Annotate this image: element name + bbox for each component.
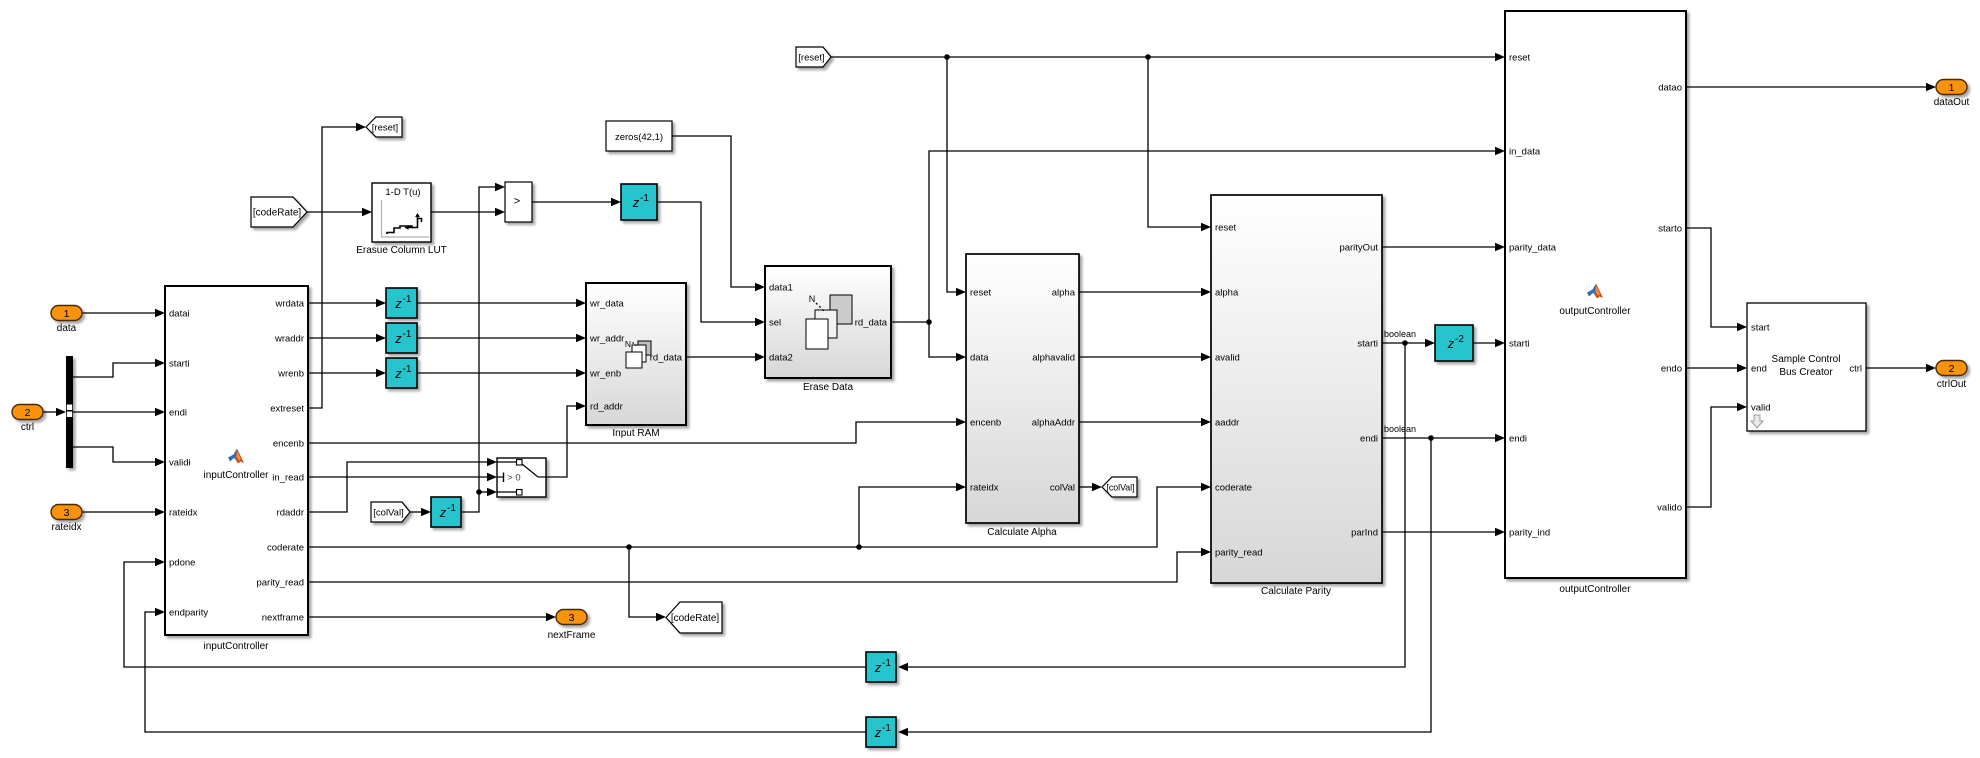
svg-text:parityOut: parityOut xyxy=(1339,242,1378,253)
svg-text:starti: starti xyxy=(1357,338,1378,349)
svg-text:1-D T(u): 1-D T(u) xyxy=(385,187,420,198)
svg-text:parity_read: parity_read xyxy=(256,577,304,588)
svg-text:alphaAddr: alphaAddr xyxy=(1032,417,1075,428)
svg-text:parity_ind: parity_ind xyxy=(1509,527,1550,538)
svg-text:wrenb: wrenb xyxy=(277,368,304,379)
svg-text:rateidx: rateidx xyxy=(169,507,198,518)
svg-text:data: data xyxy=(57,323,77,334)
svg-text:endi: endi xyxy=(1360,433,1378,444)
svg-text:z: z xyxy=(874,725,882,740)
svg-text:wraddr: wraddr xyxy=(274,333,304,344)
svg-text:-2: -2 xyxy=(1455,334,1464,345)
svg-text:rateidx: rateidx xyxy=(970,482,999,493)
svg-text:-1: -1 xyxy=(882,658,891,669)
svg-text:coderate: coderate xyxy=(1215,482,1252,493)
svg-text:datai: datai xyxy=(169,308,190,319)
svg-text:boolean: boolean xyxy=(1384,329,1416,339)
svg-text:avalid: avalid xyxy=(1215,352,1240,363)
svg-text:rdaddr: rdaddr xyxy=(277,507,304,518)
svg-text:reset: reset xyxy=(1509,52,1530,63)
svg-text:wr_enb: wr_enb xyxy=(589,368,621,379)
svg-text:colVal: colVal xyxy=(1050,482,1075,493)
svg-text:zeros(42,1): zeros(42,1) xyxy=(615,132,663,143)
svg-text:N: N xyxy=(625,339,631,349)
svg-text:rd_data: rd_data xyxy=(650,353,683,364)
svg-text:endo: endo xyxy=(1661,363,1682,374)
svg-text:[colVal]: [colVal] xyxy=(1106,483,1134,493)
svg-text:-1: -1 xyxy=(403,329,412,340)
svg-text:encenb: encenb xyxy=(970,417,1001,428)
svg-text:parInd: parInd xyxy=(1351,527,1378,538)
svg-text:inputController: inputController xyxy=(203,470,269,481)
svg-text:-1: -1 xyxy=(403,364,412,375)
svg-text:2: 2 xyxy=(1949,363,1955,375)
svg-text:wr_addr: wr_addr xyxy=(589,333,624,344)
svg-text:[reset]: [reset] xyxy=(798,53,824,64)
svg-text:extreset: extreset xyxy=(270,403,304,414)
svg-text:validi: validi xyxy=(169,457,191,468)
svg-text:-1: -1 xyxy=(882,723,891,734)
svg-text:boolean: boolean xyxy=(1384,424,1416,434)
svg-text:ctrl: ctrl xyxy=(1849,363,1862,374)
svg-text:z: z xyxy=(394,296,402,311)
svg-text:wr_data: wr_data xyxy=(589,298,625,309)
svg-text:alpha: alpha xyxy=(1215,287,1239,298)
svg-text:rd_addr: rd_addr xyxy=(590,401,623,412)
svg-text:Bus Creator: Bus Creator xyxy=(1779,367,1833,378)
svg-text:inputController: inputController xyxy=(203,641,269,652)
svg-text:-1: -1 xyxy=(640,193,649,204)
svg-text:ctrlOut: ctrlOut xyxy=(1937,379,1967,390)
svg-text:outputController: outputController xyxy=(1559,584,1631,595)
svg-text:z: z xyxy=(874,660,882,675)
svg-text:starto: starto xyxy=(1658,223,1682,234)
svg-text:data2: data2 xyxy=(769,352,793,363)
svg-text:end: end xyxy=(1751,363,1767,374)
svg-text:endi: endi xyxy=(169,407,187,418)
svg-text:1: 1 xyxy=(1949,82,1955,94)
svg-text:-1: -1 xyxy=(447,503,456,514)
svg-text:[codeRate]: [codeRate] xyxy=(253,208,302,219)
svg-text:[codeRate]: [codeRate] xyxy=(671,613,720,624)
svg-text:Erase Data: Erase Data xyxy=(803,382,853,393)
svg-text:alphavalid: alphavalid xyxy=(1032,352,1075,363)
svg-text:datao: datao xyxy=(1658,82,1682,93)
svg-text:Sample Control: Sample Control xyxy=(1772,354,1841,365)
svg-text:alpha: alpha xyxy=(1052,287,1076,298)
svg-text:encenb: encenb xyxy=(273,438,304,449)
svg-text:z: z xyxy=(632,195,640,210)
svg-text:wrdata: wrdata xyxy=(274,298,304,309)
svg-text:in_read: in_read xyxy=(272,472,304,483)
svg-text:nextFrame: nextFrame xyxy=(548,630,596,641)
svg-text:z: z xyxy=(439,505,447,520)
svg-text:z: z xyxy=(394,331,402,346)
svg-text:nextframe: nextframe xyxy=(262,612,304,623)
svg-text:outputController: outputController xyxy=(1559,306,1631,317)
svg-text:data1: data1 xyxy=(769,282,793,293)
svg-text:rateidx: rateidx xyxy=(51,522,81,533)
svg-text:starti: starti xyxy=(169,358,190,369)
svg-text:valido: valido xyxy=(1657,502,1682,513)
svg-text:valid: valid xyxy=(1751,402,1771,413)
svg-text:parity_read: parity_read xyxy=(1215,547,1263,558)
svg-text:Erasue Column LUT: Erasue Column LUT xyxy=(356,245,447,256)
svg-text:z: z xyxy=(1447,336,1455,351)
svg-text:[colVal]: [colVal] xyxy=(373,508,403,519)
svg-text:in_data: in_data xyxy=(1509,146,1541,157)
svg-text:endparity: endparity xyxy=(169,607,208,618)
svg-text:N: N xyxy=(809,294,816,304)
svg-text:1: 1 xyxy=(64,308,70,320)
svg-text:reset: reset xyxy=(970,287,991,298)
svg-text:dataOut: dataOut xyxy=(1934,97,1970,108)
svg-text:parity_data: parity_data xyxy=(1509,242,1557,253)
svg-text:sel: sel xyxy=(769,317,781,328)
svg-text:pdone: pdone xyxy=(169,557,195,568)
svg-text:Input RAM: Input RAM xyxy=(612,428,659,439)
svg-text:z: z xyxy=(394,366,402,381)
svg-text:start: start xyxy=(1751,322,1770,333)
svg-text:[reset]: [reset] xyxy=(372,123,398,134)
svg-text:starti: starti xyxy=(1509,338,1530,349)
svg-text:3: 3 xyxy=(569,612,575,624)
svg-text:endi: endi xyxy=(1509,433,1527,444)
svg-text:reset: reset xyxy=(1215,222,1236,233)
svg-text:> 0: > 0 xyxy=(507,473,520,484)
svg-text:aaddr: aaddr xyxy=(1215,417,1239,428)
svg-text:2: 2 xyxy=(25,407,31,419)
svg-text:3: 3 xyxy=(64,507,70,519)
svg-text:>: > xyxy=(514,196,520,208)
svg-text:data: data xyxy=(970,352,989,363)
svg-text:rd_data: rd_data xyxy=(855,317,888,328)
svg-text:-1: -1 xyxy=(403,294,412,305)
svg-text:Calculate Alpha: Calculate Alpha xyxy=(987,527,1057,538)
svg-text:Calculate Parity: Calculate Parity xyxy=(1261,586,1331,597)
svg-text:coderate: coderate xyxy=(267,542,304,553)
svg-text:ctrl: ctrl xyxy=(21,422,34,433)
